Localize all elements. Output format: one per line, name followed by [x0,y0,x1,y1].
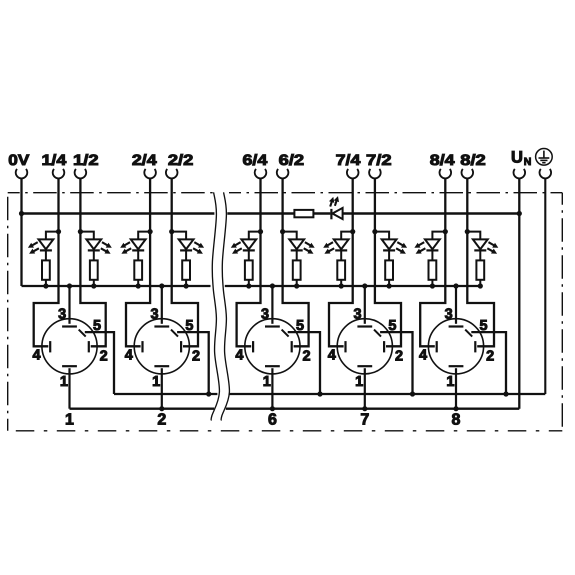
pin 3 of X2 [150,286,169,327]
pin 4 of X8 [419,341,437,364]
svg-text:7/2: 7/2 [366,152,392,169]
terminal 8/4 [430,152,456,179]
LED power indicator [329,196,343,219]
LED 7/2 indicator [375,232,407,254]
junction pin 1 / UN rail [270,406,275,411]
junction pin 5 / PE rail [206,391,211,396]
wire 0V rail [22,285,481,287]
svg-text:3: 3 [150,307,158,323]
pin 3 of X7 [353,286,372,327]
resistor for LED 7/4 [337,252,345,287]
svg-text:3: 3 [261,307,269,323]
svg-text:0V: 0V [8,152,29,169]
svg-text:8/4: 8/4 [430,152,456,169]
junction pin 3 / 0V rail [362,283,367,288]
junction 2/2 LED tap [169,229,174,234]
junction 1/2 LED tap [78,229,83,234]
resistor for LED 1/4 [42,252,50,287]
junction pin 1 / UN rail [159,406,164,411]
LED 1/4 indicator [28,232,59,254]
cable break symbol [211,192,229,420]
junction 0V / top bus [19,211,24,216]
socket number 8 [452,412,461,429]
terminal 6/4 [243,152,269,179]
resistor R-power [294,210,313,217]
svg-text:4: 4 [32,348,40,364]
pin 2 of X8 [475,341,494,364]
junction resistor 8/2 / 0V rail [478,283,483,288]
junction resistor 2/4 / 0V rail [136,283,141,288]
junction resistor 6/2 / 0V rail [294,283,299,288]
svg-text:2: 2 [100,349,108,365]
svg-text:2: 2 [303,349,311,365]
junction pin 5 / PE rail [410,391,415,396]
pin 1 of X1 [60,366,77,409]
svg-text:5: 5 [388,318,396,334]
svg-text:3: 3 [353,307,361,323]
resistor for LED 2/4 [134,252,142,287]
LED 7/4 indicator [323,232,353,254]
pin 1 of X2 [152,366,169,409]
svg-text:5: 5 [185,318,193,334]
svg-text:2: 2 [157,412,166,429]
svg-text:6: 6 [268,412,277,429]
LED 1/2 indicator [80,232,111,254]
socket number 1 [65,412,74,429]
svg-text:6/4: 6/4 [243,152,269,169]
resistor for LED 6/2 [293,252,301,287]
junction 1/4 LED tap [56,229,61,234]
wire 8/2 to pin 2 [467,178,494,346]
junction pin 3 / 0V rail [270,283,275,288]
socket number 6 [268,412,277,429]
junction pin 5 / PE rail [317,391,322,396]
LED 8/4 indicator [414,232,445,254]
junction 7/4 LED tap [350,229,355,234]
LED 6/2 indicator [283,232,315,254]
junction pin 1 / UN rail [453,406,458,411]
junction pin 5 / PE rail [503,391,508,396]
connector X1 (M12 socket 1) [42,319,97,374]
junction 6/4 LED tap [258,229,263,234]
wire 7/4 to pin 4 [329,178,353,346]
svg-text:U: U [511,148,523,166]
junction resistor 7/2 / 0V rail [387,283,392,288]
wire 6/4 to pin 4 [237,178,261,346]
svg-text:7/4: 7/4 [336,152,362,169]
connector X6 (M12 socket 6) [245,319,300,374]
junction pin 3 / 0V rail [159,283,164,288]
wire UN vertical [518,178,520,408]
wire 8/4 to pin 4 [420,178,445,346]
pin 5 of X6 [282,318,320,394]
pin 2 of X7 [384,341,403,364]
pin 3 of X1 [58,286,77,327]
pin 1 of X6 [263,366,280,409]
resistor for LED 2/2 [182,252,190,287]
resistor for LED 8/2 [476,252,484,287]
junction pin 3 / 0V rail [453,283,458,288]
rail pin5 common (PE) [114,393,545,395]
junction resistor 8/4 / 0V rail [430,283,435,288]
svg-text:2/4: 2/4 [132,152,158,169]
junction resistor 1/2 / 0V rail [91,283,96,288]
svg-text:5: 5 [480,318,488,334]
LED 2/2 indicator [172,232,204,254]
terminal 0V [8,152,29,179]
junction 6/2 LED tap [280,229,285,234]
svg-text:1: 1 [446,374,454,390]
terminal 1/2 [73,152,99,179]
junction pin 1 / UN rail [362,406,367,411]
junction resistor 1/4 / 0V rail [43,283,48,288]
svg-text:2: 2 [486,349,494,365]
svg-text:4: 4 [235,348,243,364]
wire 1/4 to pin 4 [34,178,59,346]
junction 8/2 LED tap [465,229,470,234]
terminal 1/4 [42,152,68,179]
svg-text:4: 4 [125,348,133,364]
resistor for LED 1/2 [90,252,98,287]
wire 6/2 to pin 2 [283,178,309,346]
svg-text:3: 3 [58,307,66,323]
svg-text:6/2: 6/2 [279,152,305,169]
connector X2 (M12 socket 2) [134,319,189,374]
svg-text:1: 1 [60,374,68,390]
pin 1 of X8 [446,366,463,409]
junction 7/2 LED tap [372,229,377,234]
svg-text:5: 5 [93,318,101,334]
pin 4 of X6 [235,341,253,364]
svg-text:1/2: 1/2 [73,152,99,169]
terminal 6/2 [277,152,304,179]
svg-text:4: 4 [419,348,427,364]
wire 2/2 to pin 2 [172,178,198,346]
junction resistor 7/4 / 0V rail [339,283,344,288]
terminal 7/2 [366,152,392,179]
wire PE vertical [544,178,546,394]
terminal PE (earth symbol) [536,149,553,179]
pin 5 of X8 [465,318,506,394]
LED 6/4 indicator [231,232,261,254]
connector X7 (M12 socket 7) [337,319,392,374]
pin 1 of X7 [355,366,372,409]
socket number 2 [157,412,166,429]
junction resistor 6/4 / 0V rail [246,283,251,288]
svg-text:8: 8 [452,412,461,429]
svg-text:7: 7 [360,412,369,429]
wire 1/2 to pin 2 [80,178,105,346]
svg-text:1/4: 1/4 [42,152,68,169]
resistor for LED 7/2 [385,252,393,287]
terminal 7/4 [336,152,362,179]
wire 0V vertical [20,178,22,286]
pin 3 of X6 [261,286,280,327]
resistor for LED 6/4 [245,252,253,287]
junction resistor 2/2 / 0V rail [184,283,189,288]
pin 5 of X1 [79,318,114,394]
svg-text:3: 3 [445,307,453,323]
svg-text:8/2: 8/2 [460,152,486,169]
svg-text:1: 1 [65,412,74,429]
pin 2 of X6 [292,341,311,364]
svg-text:2/2: 2/2 [168,152,194,169]
svg-text:1: 1 [152,374,160,390]
resistor for LED 8/4 [429,252,437,287]
junction 2/4 LED tap [148,229,153,234]
terminal UN [511,148,531,178]
svg-text:4: 4 [328,348,336,364]
svg-text:2: 2 [395,349,403,365]
pin 2 of X1 [89,341,108,364]
rail pin1 common (UN) [70,408,520,410]
junction pin 3 / 0V rail [67,283,72,288]
svg-text:5: 5 [296,318,304,334]
pin 5 of X2 [171,318,209,394]
svg-text:N: N [524,156,532,168]
LED 8/2 indicator [467,232,498,254]
terminal 2/4 [132,152,158,179]
junction 8/4 LED tap [443,229,448,234]
connector X8 (M12 socket 8) [428,319,483,374]
LED 2/4 indicator [120,232,150,254]
wire top bus 0V-UN [22,212,520,215]
svg-text:1: 1 [355,374,363,390]
pin 4 of X2 [125,341,143,364]
svg-text:1: 1 [263,374,271,390]
svg-text:2: 2 [192,349,200,365]
pin 4 of X1 [32,341,50,364]
terminal 8/2 [460,152,486,179]
pin 5 of X7 [374,318,413,394]
wire 7/2 to pin 2 [375,178,401,346]
pin 3 of X8 [445,286,464,327]
enclosure border (dash-dot) [8,193,563,431]
junction top bus / UN line [517,211,522,216]
pin 2 of X2 [181,341,200,364]
pin 4 of X7 [328,341,346,364]
wire 2/4 to pin 4 [126,178,150,346]
terminal 2/2 [166,152,193,179]
socket number 7 [360,412,369,429]
